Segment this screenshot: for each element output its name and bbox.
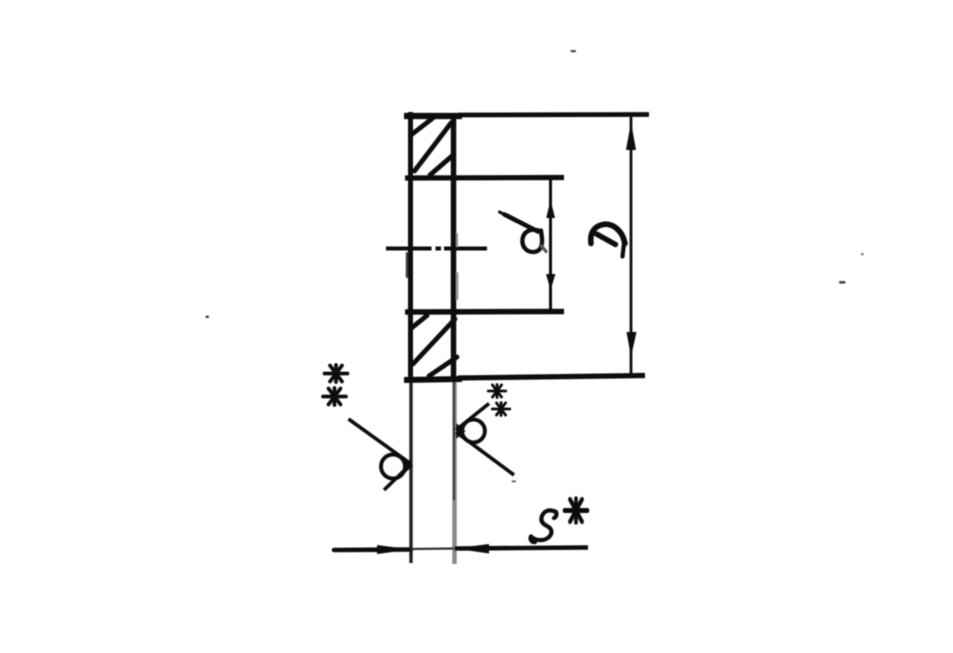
hatch top section bbox=[411, 118, 452, 175]
centerline (dash-dot) bbox=[386, 247, 487, 251]
circle of symbol bbox=[462, 420, 485, 443]
speck top bbox=[571, 50, 577, 52]
hole top edge + extension line d top bbox=[405, 175, 564, 181]
arrowhead D top bbox=[626, 122, 636, 150]
speck near symbol bbox=[512, 481, 517, 483]
texture tick on left face line bbox=[406, 252, 408, 278]
washer top edge bbox=[404, 113, 462, 119]
speck right upper bbox=[861, 253, 864, 255]
washer left face extension line (thin, below) bbox=[409, 381, 412, 563]
asterisk 1 bbox=[325, 365, 348, 382]
arm up-right bbox=[456, 404, 489, 431]
roughness symbol right (no material removal) bbox=[456, 385, 514, 475]
texture tick on right face line lower bbox=[456, 272, 458, 300]
arrowhead D bottom bbox=[627, 332, 637, 357]
arrowhead s left (pointing right) bbox=[377, 545, 411, 554]
speck right lower bbox=[839, 281, 846, 284]
washer left face line (thick, section) bbox=[408, 112, 413, 381]
label D (script) bbox=[591, 224, 625, 256]
hatch bottom section bbox=[412, 316, 458, 377]
label s asterisk bbox=[565, 499, 588, 522]
arm down-right long bbox=[456, 432, 514, 475]
asterisk 2 bbox=[323, 388, 346, 405]
label d bbox=[500, 212, 547, 252]
arrowhead d top bbox=[546, 200, 555, 218]
extension line D bottom bbox=[458, 376, 645, 379]
arm short (down-left) bbox=[384, 464, 411, 490]
asterisk 1 bbox=[488, 385, 505, 398]
circle of symbol bbox=[381, 455, 405, 479]
dimension line D bbox=[630, 117, 633, 375]
roughness symbol left (no material removal) bbox=[323, 365, 413, 490]
texture tick on right face line upper bbox=[456, 233, 458, 247]
dimension line s* left segment bbox=[334, 547, 411, 552]
arrowhead d bottom bbox=[546, 274, 556, 290]
solid wedge at tip bbox=[404, 457, 414, 475]
arrowhead s right (pointing left) bbox=[455, 544, 490, 554]
dimension line d bbox=[549, 179, 552, 311]
asterisk 2 bbox=[492, 403, 509, 416]
washer bottom edge bbox=[404, 379, 462, 380]
leader arm long (up-left) bbox=[349, 419, 412, 464]
label s bbox=[531, 510, 557, 542]
solid wedge at tip bbox=[456, 423, 466, 439]
washer right face line (thick, section) bbox=[451, 113, 457, 378]
washer right face extension line (gray, below) bbox=[452, 378, 456, 564]
dimension line s* right segment bbox=[455, 548, 589, 549]
extension line D top bbox=[458, 112, 649, 117]
dimension line s* middle thin bbox=[411, 547, 454, 550]
hole bottom edge + extension line d bottom bbox=[405, 309, 564, 315]
washer right face extension line (dark core) bbox=[453, 378, 455, 500]
speck left bbox=[206, 316, 210, 319]
